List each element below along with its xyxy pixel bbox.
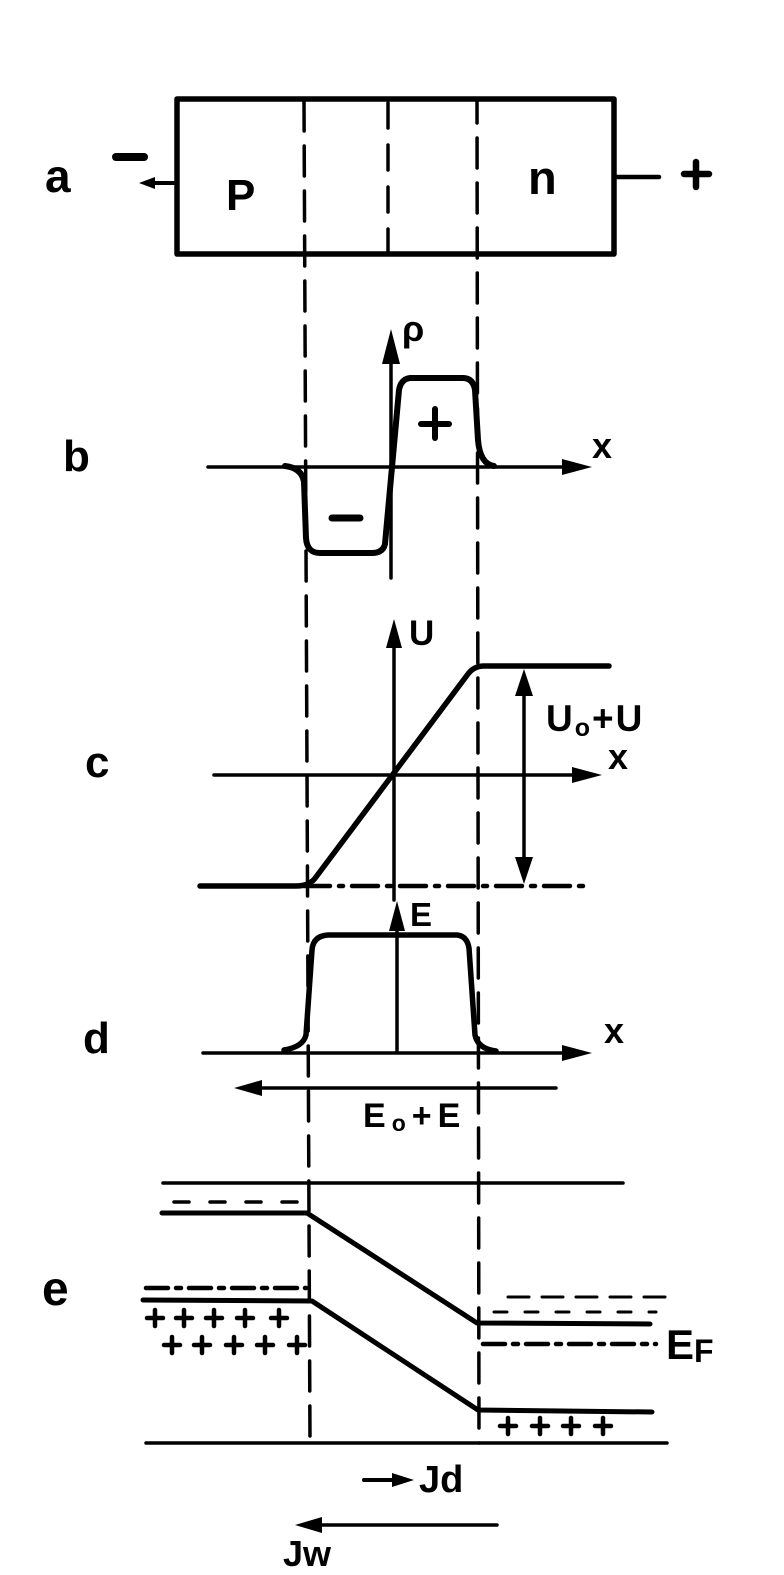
svg-text:x: x (608, 736, 628, 777)
svg-text:d: d (83, 1014, 110, 1063)
svg-text:Eo+E: Eo+E (363, 1097, 466, 1136)
svg-text:Jw: Jw (283, 1533, 332, 1574)
svg-text:E: E (410, 896, 432, 933)
svg-text:x: x (604, 1010, 624, 1051)
svg-text:Jd: Jd (419, 1459, 463, 1501)
svg-text:a: a (45, 150, 71, 202)
svg-text:EF: EF (666, 1321, 714, 1369)
svg-text:Uo+U: Uo+U (546, 698, 644, 742)
svg-text:U: U (409, 614, 434, 653)
svg-text:ρ: ρ (402, 308, 424, 349)
svg-text:e: e (42, 1263, 69, 1316)
svg-text:c: c (85, 738, 109, 787)
svg-text:x: x (592, 425, 612, 466)
svg-text:n: n (528, 151, 557, 204)
svg-text:b: b (63, 432, 90, 481)
svg-text:P: P (226, 171, 255, 220)
